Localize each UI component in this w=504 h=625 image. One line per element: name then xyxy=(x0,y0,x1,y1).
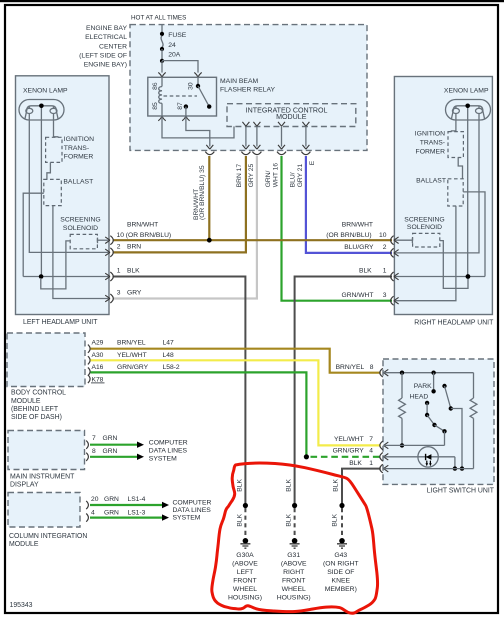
wire junction to relay pin 30 xyxy=(162,61,198,73)
svg-text:ELECTRICAL: ELECTRICAL xyxy=(85,34,127,41)
svg-text:LS1-4: LS1-4 xyxy=(128,496,146,503)
connector arcs left box pins xyxy=(110,236,113,245)
screening solenoid right box xyxy=(413,233,440,247)
svg-text:3: 3 xyxy=(117,290,121,297)
resistor right LSU xyxy=(470,373,477,469)
wire solenoid to pin 10 right xyxy=(394,239,413,241)
svg-text:XENON LAMP: XENON LAMP xyxy=(444,87,489,94)
svg-text:WHEEL: WHEEL xyxy=(282,586,306,593)
svg-text:IGNITION: IGNITION xyxy=(64,136,94,143)
engine bay electrical center box xyxy=(130,25,367,151)
LSU pin 7 row xyxy=(384,444,445,446)
svg-text:24: 24 xyxy=(168,42,176,49)
svg-text:G43: G43 xyxy=(334,552,347,559)
svg-text:DATA LINES: DATA LINES xyxy=(173,507,212,514)
solenoid left terminal bar xyxy=(97,238,99,244)
svg-text:SCREENING: SCREENING xyxy=(60,216,100,223)
wire BRN/YEL A29 to light switch pin 8 xyxy=(91,349,381,373)
wire CIM pin 20 GRN xyxy=(90,504,162,506)
ICM output arrow pin 17 xyxy=(242,122,249,126)
red annotation loop xyxy=(212,463,378,613)
wire solenoid return to BLK node right xyxy=(440,241,468,289)
integrated control module box xyxy=(227,104,356,127)
svg-text:HEAD: HEAD xyxy=(409,393,428,400)
connector arrowheads left box pins xyxy=(105,237,110,244)
svg-text:LEFT: LEFT xyxy=(237,569,254,576)
junction node lamp center on BLK row xyxy=(39,274,44,279)
svg-text:COMPUTER: COMPUTER xyxy=(173,499,212,506)
svg-text:LEFT HEADLAMP UNIT: LEFT HEADLAMP UNIT xyxy=(23,319,98,326)
svg-text:SYSTEM: SYSTEM xyxy=(149,455,177,462)
svg-text:A29: A29 xyxy=(92,339,104,346)
wire MID pin 8 GRN xyxy=(90,456,137,458)
svg-text:30: 30 xyxy=(188,82,195,90)
svg-text:DATA LINES: DATA LINES xyxy=(149,447,188,454)
svg-text:(LEFT SIDE OF: (LEFT SIDE OF xyxy=(79,53,127,60)
wire BLK row inside right box xyxy=(394,276,485,278)
junction node fuse output xyxy=(160,59,164,63)
relay coil 86-85 xyxy=(159,77,162,116)
wire BLK light switch pin 1 xyxy=(342,469,381,506)
svg-text:(ABOVE: (ABOVE xyxy=(232,560,258,567)
svg-text:FUSE: FUSE xyxy=(168,32,187,39)
right headlamp unit box xyxy=(394,77,492,315)
svg-text:HOUSING): HOUSING) xyxy=(228,595,262,602)
head contact terminal xyxy=(442,384,446,388)
svg-text:7: 7 xyxy=(92,435,96,442)
light switch unit box xyxy=(383,359,494,484)
connector arcs at engine bay edge xyxy=(205,152,214,155)
BCM connector arcs xyxy=(88,345,90,353)
svg-text:20: 20 xyxy=(91,496,99,503)
arrow MID pin 8 xyxy=(137,454,144,460)
ICM output arrow pin 21 xyxy=(302,122,309,126)
svg-text:MAIN INSTRUMENT: MAIN INSTRUMENT xyxy=(10,474,75,481)
wire BLK row inside left box xyxy=(23,276,109,278)
wire YEL/WHT A30 to light switch pin 7 xyxy=(91,360,381,445)
fuse F24 xyxy=(160,32,164,51)
svg-text:20A: 20A xyxy=(168,52,181,59)
svg-text:HOT AT ALL TIMES: HOT AT ALL TIMES xyxy=(131,15,186,22)
svg-text:WHEEL: WHEEL xyxy=(233,586,257,593)
LSU connector arrowheads xyxy=(384,369,389,376)
svg-text:GRN: GRN xyxy=(103,448,118,455)
ignition transformer right box xyxy=(448,132,463,158)
resistor left LSU xyxy=(399,373,406,446)
svg-text:GRN/: GRN/ xyxy=(265,170,272,187)
svg-text:YEL/WHT: YEL/WHT xyxy=(117,352,147,359)
svg-text:MAIN BEAM: MAIN BEAM xyxy=(220,78,258,85)
ground G31 xyxy=(290,538,300,548)
svg-text:TRANS-: TRANS- xyxy=(420,140,445,147)
svg-text:FORMER: FORMER xyxy=(416,148,446,155)
wire ignition transformer to ballast left xyxy=(47,162,51,179)
svg-text:L58-2: L58-2 xyxy=(163,364,180,371)
svg-text:HOUSING): HOUSING) xyxy=(277,595,311,602)
svg-text:SOLENOID: SOLENOID xyxy=(63,225,98,232)
svg-text:SYSTEM: SYSTEM xyxy=(173,515,201,522)
park contact terminal xyxy=(431,389,435,393)
node D resistor to pin 7 row xyxy=(400,443,404,447)
wire BRN 17 vertical and to left pin 2 xyxy=(113,156,246,252)
svg-text:BLK: BLK xyxy=(285,513,292,526)
svg-text:BRN: BRN xyxy=(127,244,141,251)
wire GRN/GRY dashed to light switch pin 4 xyxy=(311,456,381,458)
head switch arm xyxy=(445,386,451,409)
svg-text:GRY 21: GRY 21 xyxy=(297,163,304,187)
svg-text:K78: K78 xyxy=(92,376,104,383)
svg-text:BLK 1: BLK 1 xyxy=(349,460,373,467)
wire GRN/GRY A16 to junction xyxy=(91,372,307,456)
park contact stem xyxy=(433,373,435,390)
svg-text:GRN/GRY 4: GRN/GRY 4 xyxy=(333,447,374,454)
relay exit flare pin 85 xyxy=(158,116,165,121)
MID connector arcs xyxy=(86,441,88,449)
connector arrowheads at engine bay edge xyxy=(206,145,213,149)
svg-text:BRN/YEL 8: BRN/YEL 8 xyxy=(336,364,374,371)
column integration module box xyxy=(8,493,80,528)
svg-text:BRN/WHT: BRN/WHT xyxy=(127,222,158,229)
wire GRN/WHT 16 vertical and to right pin 3 xyxy=(282,156,393,301)
svg-text:MODULE: MODULE xyxy=(276,113,307,121)
relay exit flare pin 87 xyxy=(182,116,189,121)
ballast right box xyxy=(448,179,463,206)
svg-text:ENGINE BAY: ENGINE BAY xyxy=(86,25,128,32)
svg-text:CENTER: CENTER xyxy=(99,43,127,50)
svg-text:WHT 16: WHT 16 xyxy=(273,163,280,188)
ground G43 xyxy=(337,538,347,548)
svg-text:SIDE OF: SIDE OF xyxy=(327,569,354,576)
wire relay 87 to connector xyxy=(186,116,210,147)
xenon lamp symbol left xyxy=(19,100,64,121)
LSU connector arcs xyxy=(380,368,383,377)
svg-text:XENON LAMP: XENON LAMP xyxy=(23,88,68,95)
wire head arm to BLK row xyxy=(451,409,462,469)
svg-text:86: 86 xyxy=(152,82,159,90)
svg-text:COMPUTER: COMPUTER xyxy=(149,439,188,446)
svg-text:BALLAST: BALLAST xyxy=(416,178,446,185)
wire BLU/GRY 21 vertical and to right pin 2 xyxy=(306,156,392,253)
svg-text:85: 85 xyxy=(152,102,159,110)
svg-text:(ABOVE: (ABOVE xyxy=(281,560,307,567)
svg-text:GRY: GRY xyxy=(127,290,142,297)
svg-text:A16: A16 xyxy=(92,364,104,371)
xenon lamp symbol right xyxy=(446,100,491,121)
arrow CIM pin 4 xyxy=(162,514,169,520)
wire ICM pin 17 drop xyxy=(245,127,247,147)
svg-text:KNEE: KNEE xyxy=(332,577,351,584)
relay actuator dashed link xyxy=(164,95,198,97)
svg-text:BLK: BLK xyxy=(332,513,339,526)
wire left lamp electrode to pin 2 xyxy=(29,114,109,253)
svg-text:MEMBER): MEMBER) xyxy=(325,586,357,593)
svg-text:A30: A30 xyxy=(92,352,104,359)
svg-text:GRN: GRN xyxy=(104,496,119,503)
LSU pin 1 row xyxy=(384,468,474,470)
svg-text:L47: L47 xyxy=(163,339,174,346)
svg-text:LS1-3: LS1-3 xyxy=(128,510,146,517)
wire BRN/WHT row pin 10 left to right xyxy=(113,239,393,241)
arrow MID pin 7 xyxy=(137,442,144,448)
relay entry flare pin 30 xyxy=(194,72,201,77)
wire solenoid return to BLK node xyxy=(41,241,70,289)
svg-text:IGNITION: IGNITION xyxy=(415,131,445,138)
svg-text:SOLENOID: SOLENOID xyxy=(407,224,442,231)
svg-text:L48: L48 xyxy=(163,352,174,359)
ground G30A xyxy=(240,538,250,548)
svg-text:2: 2 xyxy=(117,244,121,251)
svg-text:RIGHT: RIGHT xyxy=(283,569,304,576)
wire right lamp electrode to ignition transformer xyxy=(451,114,456,132)
ICM output arrow pin 16 xyxy=(278,122,285,126)
wire junction to relay pin 86 xyxy=(161,61,163,73)
svg-text:BRN 17: BRN 17 xyxy=(236,164,243,188)
svg-text:BLK: BLK xyxy=(332,479,339,492)
svg-text:FORMER: FORMER xyxy=(64,154,94,161)
svg-text:SIDE OF DASH): SIDE OF DASH) xyxy=(11,414,62,421)
wire ICM pin 21 drop xyxy=(305,127,307,147)
svg-text:LIGHT SWITCH UNIT: LIGHT SWITCH UNIT xyxy=(427,488,495,495)
connector arcs right box pins xyxy=(391,236,394,245)
fuse F24 feed wire xyxy=(161,25,163,34)
node A on feed xyxy=(400,371,404,375)
wire ICM pin 25 drop xyxy=(256,127,258,147)
LED symbol xyxy=(426,454,432,466)
junction node BRN/WHT 35 on row 10 xyxy=(207,238,212,243)
main beam flasher relay K box xyxy=(148,77,217,116)
svg-text:PARK: PARK xyxy=(414,383,432,390)
wire ignition transformer to ballast right xyxy=(458,158,462,179)
svg-text:BLU/GRY 2: BLU/GRY 2 xyxy=(344,244,387,251)
wire right lamp center to BLK node xyxy=(467,108,469,277)
svg-text:G31: G31 xyxy=(287,552,300,559)
wire relay 85 to ICM xyxy=(162,116,234,138)
wire solenoid to pin 10 xyxy=(98,239,110,241)
wire BLK left headlamp pin 1 xyxy=(113,277,246,506)
junction node GRN/GRY xyxy=(304,454,309,459)
page top rule xyxy=(0,0,504,2)
wire CIM pin 4 GRN xyxy=(90,516,162,518)
svg-text:GRN: GRN xyxy=(103,435,118,442)
svg-text:BLU/: BLU/ xyxy=(290,172,297,187)
solenoid right terminal bar xyxy=(411,238,413,244)
svg-text:BRN/WHT: BRN/WHT xyxy=(342,222,373,229)
wire ballast bottom pin to pin 3 xyxy=(394,206,456,301)
junction node solenoid return right xyxy=(466,274,471,279)
wire ICM pin 16 drop xyxy=(281,127,283,147)
svg-text:GRN: GRN xyxy=(104,510,119,517)
svg-text:195343: 195343 xyxy=(10,602,33,609)
svg-text:TRANS-: TRANS- xyxy=(64,145,89,152)
wire left lamp electrode to ignition transformer xyxy=(54,114,58,138)
svg-text:87: 87 xyxy=(177,102,184,110)
svg-text:BLK: BLK xyxy=(236,513,243,526)
svg-text:4: 4 xyxy=(91,510,95,517)
svg-text:(OR BRN/BLU) 10: (OR BRN/BLU) 10 xyxy=(326,232,386,239)
wire right lamp electrode to pin 2 xyxy=(394,114,479,253)
svg-text:YEL/WHT 7: YEL/WHT 7 xyxy=(334,436,373,443)
wire fuse to junction xyxy=(161,49,163,61)
svg-text:BLK: BLK xyxy=(285,479,292,492)
wire GRY 25 vertical and to left pin 3 xyxy=(113,156,257,299)
svg-text:FRONT: FRONT xyxy=(282,577,305,584)
wire BLK right headlamp pin 1 xyxy=(295,277,392,506)
svg-text:BLK: BLK xyxy=(127,268,140,275)
svg-text:(OR BRN/BLU) 35: (OR BRN/BLU) 35 xyxy=(199,165,206,220)
svg-text:G30A: G30A xyxy=(236,552,254,559)
wire BRN/WHT 35 vertical xyxy=(208,156,210,240)
node B on feed xyxy=(431,371,435,375)
svg-text:GRY 25: GRY 25 xyxy=(248,163,255,187)
LSU top feed wire xyxy=(384,372,474,374)
main instrument display box xyxy=(8,431,85,470)
svg-text:BALLAST: BALLAST xyxy=(63,179,93,186)
K78 underline xyxy=(91,382,105,384)
svg-text:8: 8 xyxy=(92,448,96,455)
svg-text:MODULE: MODULE xyxy=(11,398,41,405)
svg-text:BLK 1: BLK 1 xyxy=(359,268,387,275)
ICM entry flare xyxy=(230,122,237,127)
relay switch pin 30 and arm xyxy=(196,77,212,109)
svg-text:BRN/YEL: BRN/YEL xyxy=(117,339,146,346)
ballast left box xyxy=(44,179,62,205)
junction node lamp center on BLK row right xyxy=(466,274,471,279)
svg-text:GRN/GRY: GRN/GRY xyxy=(117,364,149,371)
ICM output arrow pin 25 xyxy=(253,122,260,126)
svg-text:DISPLAY: DISPLAY xyxy=(10,481,39,488)
svg-text:(ON RIGHT: (ON RIGHT xyxy=(323,560,359,567)
svg-text:1: 1 xyxy=(117,268,121,275)
screening solenoid left box xyxy=(70,234,97,248)
svg-text:ENGINE BAY): ENGINE BAY) xyxy=(84,62,127,69)
relay pin 87 terminal xyxy=(184,104,188,116)
wire MID pin 7 GRN xyxy=(90,444,137,446)
rotary wiper chain xyxy=(425,401,447,446)
wire LED to BLK row xyxy=(454,457,456,469)
svg-text:GRN/WHT 3: GRN/WHT 3 xyxy=(342,292,387,299)
ignition transformer left box xyxy=(46,137,62,162)
svg-text:SCREENING: SCREENING xyxy=(404,217,444,224)
CIM connector arcs xyxy=(86,501,88,509)
svg-text:10 (OR BRN/BLU): 10 (OR BRN/BLU) xyxy=(117,232,172,239)
connector arrowheads right box pins xyxy=(394,237,399,244)
wire ballast left pin to BLK row xyxy=(23,193,44,276)
svg-text:MODULE: MODULE xyxy=(9,541,39,548)
LED illumination circle xyxy=(418,447,438,467)
svg-text:FLASHER RELAY: FLASHER RELAY xyxy=(220,86,275,93)
svg-text:RIGHT HEADLAMP UNIT: RIGHT HEADLAMP UNIT xyxy=(414,320,494,327)
svg-text:COLUMN INTEGRATION: COLUMN INTEGRATION xyxy=(9,533,87,540)
svg-text:BODY CONTROL: BODY CONTROL xyxy=(11,389,66,396)
relay entry flare pin 86 xyxy=(158,72,165,77)
LSU pin 4 row through LED xyxy=(384,456,455,458)
body control module box xyxy=(7,333,85,387)
left headlamp unit box xyxy=(16,76,110,315)
svg-text:(BEHIND LEFT: (BEHIND LEFT xyxy=(11,406,59,413)
svg-text:BLK: BLK xyxy=(236,479,243,492)
wire ballast bottom pin to pin 3 xyxy=(53,206,110,299)
wire ballast right pin to BLK row xyxy=(463,192,485,277)
svg-text:FRONT: FRONT xyxy=(233,577,256,584)
arrow CIM pin 20 xyxy=(162,502,169,508)
svg-text:E: E xyxy=(309,160,316,165)
wire left lamp center to BLK node xyxy=(40,108,42,277)
